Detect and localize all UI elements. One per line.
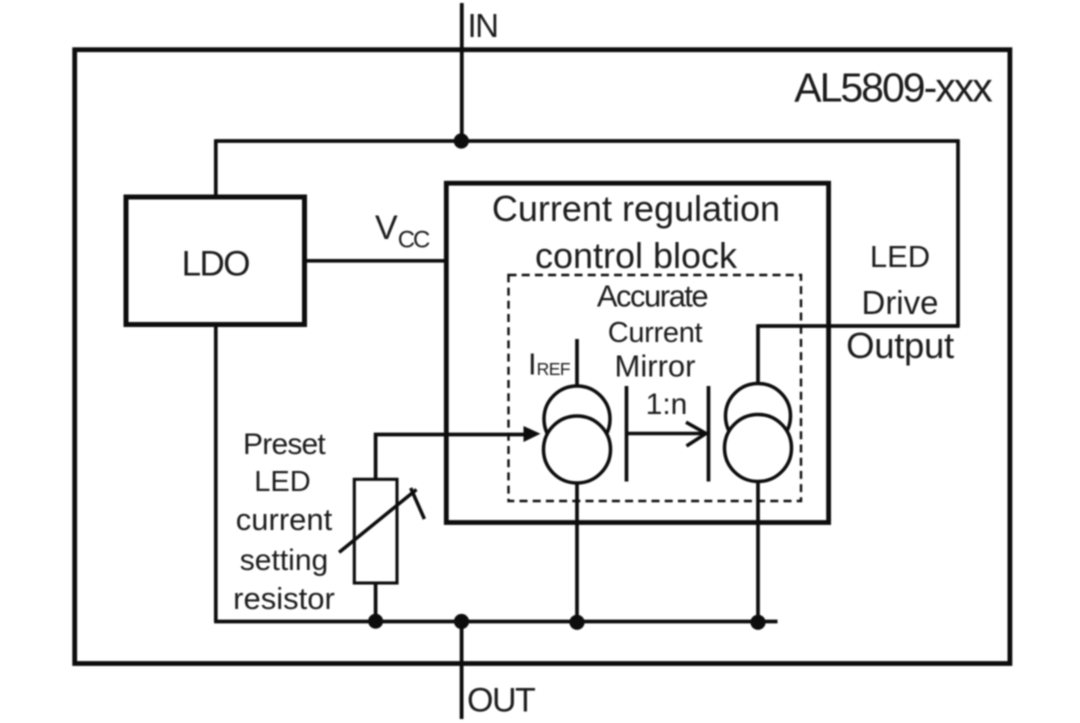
svg-text:OUT: OUT [467, 682, 535, 720]
svg-text:AL5809-xxx: AL5809-xxx [794, 65, 993, 111]
node OUT junction [454, 614, 469, 629]
wire LED drive branch vertical [956, 139, 960, 326]
mirror output bar [707, 386, 711, 482]
wire output source top lead [756, 324, 760, 388]
svg-text:Current regulation: Current regulation [492, 188, 780, 229]
mirror input bar [625, 386, 629, 482]
current source IREF [544, 386, 611, 483]
accurate current mirror dashed boundary [509, 275, 802, 501]
wire resistor to IREF reference input [376, 435, 533, 480]
wire LDO VCC output [307, 259, 445, 263]
wire OUT bus [214, 620, 777, 624]
wire IREF source bottom lead [575, 480, 579, 622]
svg-text:resistor: resistor [233, 581, 335, 616]
wire IREF source top stub [575, 339, 579, 388]
svg-text:Output: Output [846, 325, 954, 366]
wire top rail [216, 139, 958, 143]
svg-text:LED: LED [870, 239, 930, 274]
svg-text:Current: Current [608, 317, 703, 349]
svg-text:IN: IN [468, 7, 498, 44]
OUT output wire [460, 622, 464, 720]
mirror ratio arrow [628, 422, 706, 446]
svg-text:current: current [236, 502, 333, 537]
current regulation control block [446, 183, 828, 522]
svg-text:1:n: 1:n [646, 388, 688, 421]
arrowhead reference input [524, 426, 541, 442]
wire LED drive into block [758, 324, 960, 328]
node IREF junction [569, 615, 584, 630]
svg-text:Mirror: Mirror [615, 349, 696, 384]
svg-text:LED: LED [254, 466, 310, 498]
current source output [725, 384, 792, 482]
IC boundary box AL5809 [75, 50, 1010, 664]
svg-text:Drive: Drive [861, 284, 938, 321]
resistor adjustment arrow tick [411, 488, 425, 519]
wire LDO top riser [214, 139, 218, 197]
wire resistor bottom lead [374, 583, 378, 622]
svg-text:Preset: Preset [243, 428, 326, 461]
LDO block [126, 197, 305, 325]
node IN junction [454, 133, 469, 148]
wire LDO bottom to OUT bus [214, 325, 218, 622]
svg-text:Accurate: Accurate [597, 279, 708, 314]
svg-text:setting: setting [240, 544, 328, 577]
svg-text:LDO: LDO [182, 245, 250, 284]
node resistor junction [368, 614, 383, 629]
IN input wire [460, 3, 464, 143]
wire output source bottom lead [756, 480, 760, 622]
resistor adjustment arrow [339, 490, 416, 553]
node output junction [750, 615, 765, 630]
svg-text:control block: control block [535, 235, 738, 276]
resistor RSET body [354, 479, 397, 583]
